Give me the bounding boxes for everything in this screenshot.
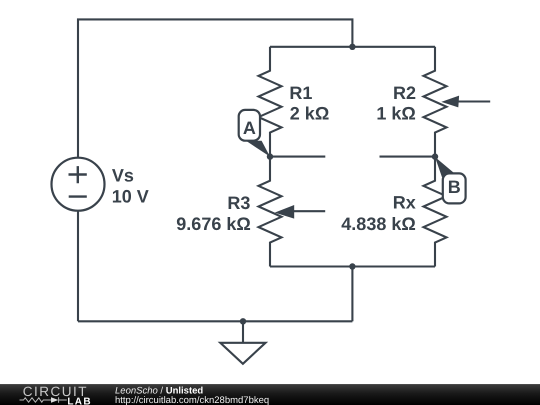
wire: bridge bottom center down to bottom wire [351,267,353,322]
svg-text:A: A [243,118,256,138]
svg-text:R3: R3 [227,193,250,213]
wire: bridge top rail [270,46,435,48]
svg-text:9.676 kΩ: 9.676 kΩ [176,214,251,234]
R3 wiper arrow [275,205,326,219]
node B flag [435,157,466,203]
svg-text:LAB: LAB [67,396,91,405]
resistor R3 (potentiometer body, with leads) [259,157,282,267]
svg-text:R2: R2 [393,83,416,103]
svg-text:Vs: Vs [112,166,134,186]
R2 wiper arrow [441,96,490,108]
svg-text:10 V: 10 V [112,187,149,207]
svg-text:2 kΩ: 2 kΩ [290,104,329,124]
voltage source Vs circle [52,158,105,211]
resistor R1 (with leads) [259,47,282,157]
wire: left vertical lower (source bottom to bottom wire) [77,211,79,321]
junction dot top center [349,44,355,50]
node A flag [239,110,270,157]
voltage source minus sign [69,195,87,197]
svg-text:R1: R1 [289,83,312,103]
wire: bridge bottom rail [270,265,435,267]
svg-text:http://circuitlab.com/ckn28bmd: http://circuitlab.com/ckn28bmd7bkeq [115,395,269,405]
junction dot node B [432,153,438,159]
resistor R2 (potentiometer body, with leads) [424,47,447,157]
resistor Rx (with leads) [424,157,447,267]
junction dot ground [240,318,246,324]
wire: bottom horizontal [78,320,352,322]
wire: stub from node B to the left [380,156,436,158]
svg-text:4.838 kΩ: 4.838 kΩ [341,214,416,234]
wire: stub from node A to the right [270,156,325,158]
wire: left vertical + top horizontal from source to bridge top [78,19,352,157]
junction dot bottom center [349,263,355,269]
svg-text:1 kΩ: 1 kΩ [376,104,415,124]
junction dot node A [267,153,273,159]
ground [220,321,265,364]
CircuitLab logo squiggle (resistor + diode) [20,397,67,403]
svg-text:Rx: Rx [393,193,416,213]
voltage source plus sign [69,166,87,183]
svg-text:B: B [448,177,461,197]
